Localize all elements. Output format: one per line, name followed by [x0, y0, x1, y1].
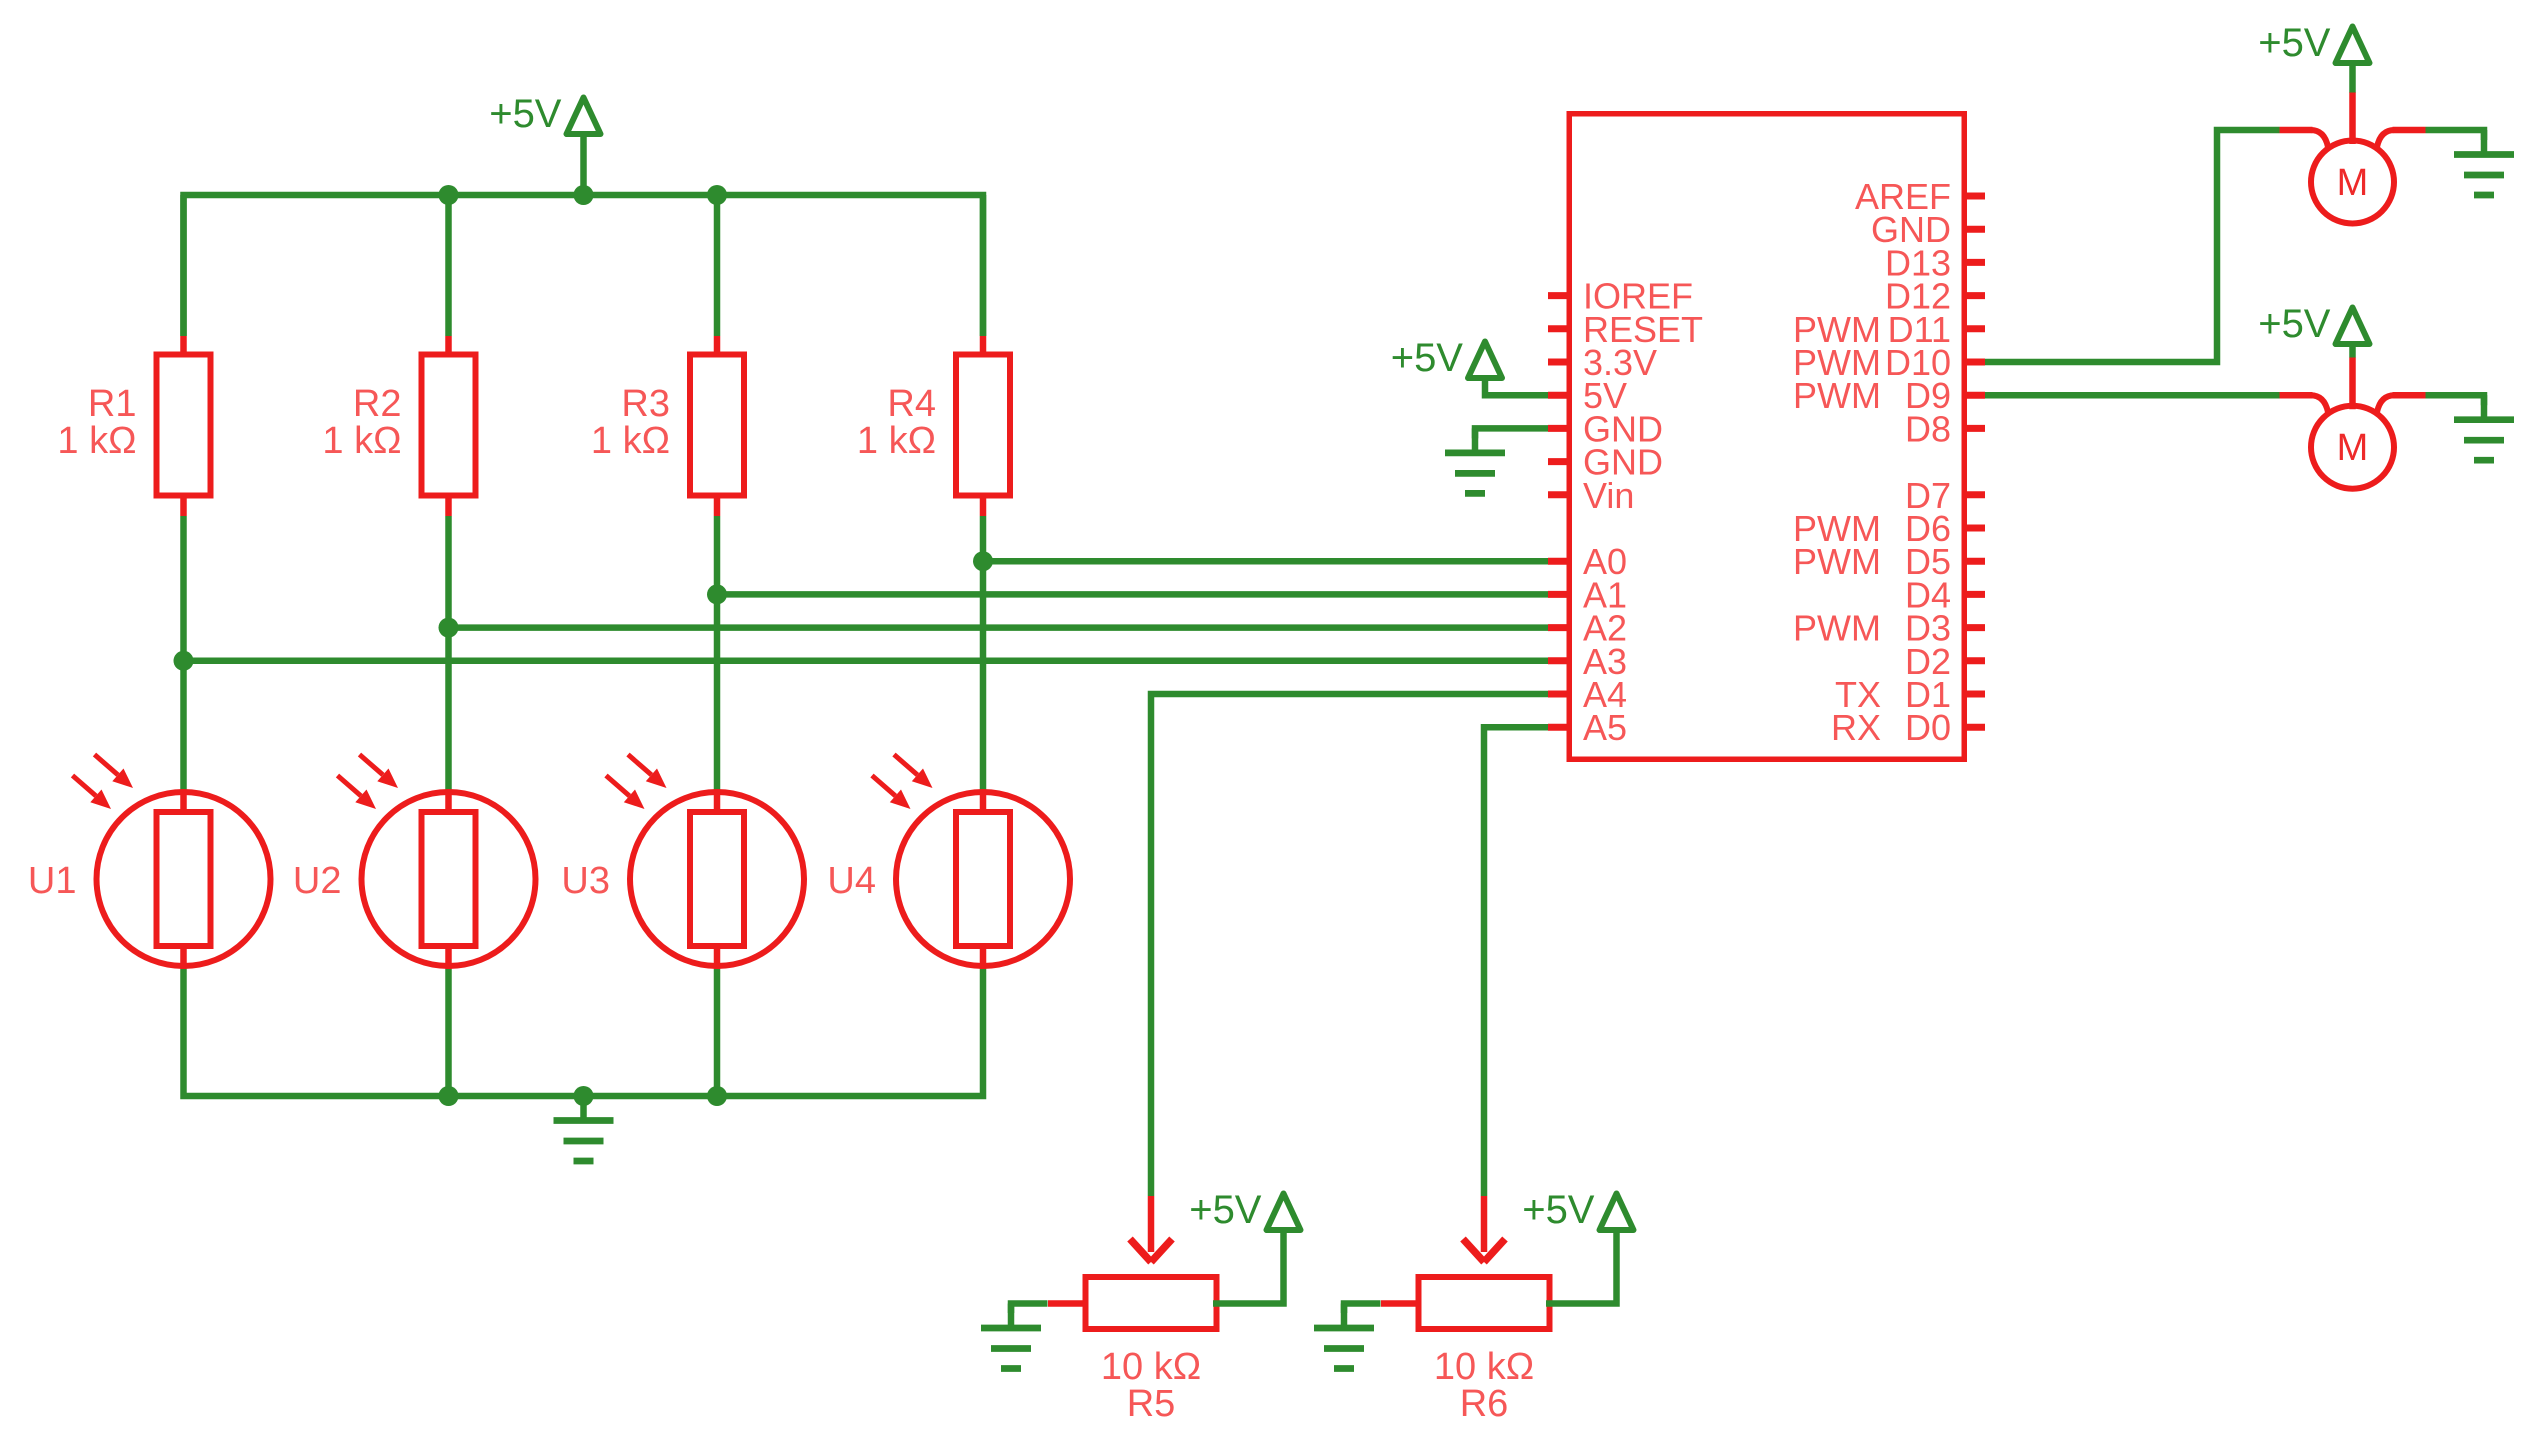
node junction A2 tap — [439, 618, 459, 638]
pin D10 (right, stub + label) — [1793, 342, 1985, 383]
resistor R3 1 kOhm with leads — [591, 195, 744, 790]
svg-text:10 kΩ: 10 kΩ — [1434, 1346, 1534, 1388]
motor M2 — [2280, 357, 2426, 489]
ground GND1 (sensor network) — [554, 1096, 614, 1161]
wire R5 left to ground — [1011, 1304, 1048, 1314]
pin A1 (left, stub + label) — [1548, 574, 1627, 615]
wire motor M1 to ground — [2426, 130, 2485, 140]
power flag +5V PWR6 (R6) — [1522, 1188, 1633, 1232]
svg-text:+5V: +5V — [1522, 1188, 1595, 1232]
wire +5V stem to rail — [580, 134, 587, 195]
pin D8 (right, stub + label) — [1905, 408, 1985, 449]
power flag +5V PWR4 (motor M2) — [2258, 302, 2369, 346]
node junction brail-U3 — [707, 1086, 727, 1106]
resistor R4 1 kOhm with leads — [857, 195, 1010, 790]
svg-text:D8: D8 — [1905, 408, 1951, 449]
svg-text:+5V: +5V — [489, 92, 562, 136]
svg-text:M: M — [2337, 162, 2369, 204]
ground GND3 (motor M1) — [2454, 130, 2514, 195]
pin 3.3V (left, stub + label) — [1548, 342, 1657, 383]
wire +5V to motor M1 — [2349, 63, 2356, 93]
potentiometer R5 10 kOhm — [1048, 1196, 1217, 1425]
wire R5 right to +5V — [1213, 1230, 1284, 1304]
power flag +5V PWR3 (motor M1) — [2258, 21, 2369, 65]
node junction rail-R2 — [439, 185, 459, 205]
power flag +5V PWR5 (R5) — [1189, 1188, 1300, 1232]
photoresistor U4 — [827, 755, 1070, 969]
wire A1 net — [717, 591, 1548, 598]
pin A4 (left, stub + label) — [1548, 674, 1627, 715]
svg-text:U1: U1 — [28, 860, 77, 902]
svg-text:U3: U3 — [561, 860, 610, 902]
power flag +5V PWR1 (top of sensor network) — [489, 92, 600, 136]
photoresistor U1 — [28, 755, 271, 969]
wire A2 net — [449, 624, 1549, 631]
svg-text:R4: R4 — [887, 383, 936, 425]
wire D9 net — [1985, 392, 2280, 399]
wire R6 right to +5V — [1546, 1230, 1617, 1304]
wire R6 left to ground — [1344, 1304, 1381, 1314]
pin D13 (right, stub + label) — [1885, 242, 1985, 283]
svg-text:PWM: PWM — [1793, 375, 1881, 416]
wire A4 net — [1151, 694, 1548, 1196]
pin D2 (right, stub + label) — [1905, 641, 1985, 682]
pin D11 (right, stub + label) — [1793, 309, 1985, 350]
pin A2 (left, stub + label) — [1548, 608, 1627, 649]
module U5 Arduino Uno body — [1569, 114, 1964, 760]
motor M1 — [2280, 92, 2426, 224]
svg-text:PWM: PWM — [1793, 541, 1881, 582]
resistor R2 1 kOhm with leads — [322, 195, 475, 790]
pin GND (left, stub + label) — [1548, 442, 1663, 483]
svg-text:RX: RX — [1831, 707, 1881, 748]
svg-text:PWM: PWM — [1793, 608, 1881, 649]
pin IOREF (left, stub + label) — [1548, 276, 1693, 317]
pin Vin (left, stub + label) — [1548, 475, 1634, 516]
pin AREF (right, stub + label) — [1855, 176, 1985, 217]
wire +5V to motor M2 — [2349, 344, 2356, 358]
svg-text:A5: A5 — [1583, 707, 1627, 748]
photoresistor U3 — [561, 755, 804, 1096]
svg-text:R5: R5 — [1127, 1383, 1176, 1425]
pin D7 (right, stub + label) — [1905, 475, 1985, 516]
power flag +5V PWR2 (Arduino 5V pin) — [1391, 336, 1502, 380]
pin 5V (left, stub + label) — [1548, 375, 1627, 416]
pin D0 (right, stub + label) — [1831, 707, 1985, 748]
pin A5 (left, stub + label) — [1548, 707, 1627, 748]
pin D9 (right, stub + label) — [1793, 375, 1985, 416]
svg-text:10 kΩ: 10 kΩ — [1101, 1346, 1201, 1388]
svg-text:R6: R6 — [1460, 1383, 1509, 1425]
svg-text:1 kΩ: 1 kΩ — [591, 420, 670, 462]
svg-text:1 kΩ: 1 kΩ — [57, 420, 136, 462]
pin D6 (right, stub + label) — [1793, 508, 1985, 549]
pin RESET (left, stub + label) — [1548, 309, 1703, 350]
potentiometer R6 10 kOhm — [1381, 1196, 1550, 1425]
svg-text:U2: U2 — [293, 860, 342, 902]
svg-text:R2: R2 — [353, 383, 402, 425]
svg-text:+5V: +5V — [1391, 336, 1464, 380]
wire A0 net — [983, 558, 1548, 565]
svg-text:+5V: +5V — [1189, 1188, 1262, 1232]
wire A3 net — [184, 658, 1549, 665]
node junction rail-R3 — [707, 185, 727, 205]
resistor R1 1 kOhm with leads — [57, 195, 210, 790]
pin D5 (right, stub + label) — [1793, 541, 1985, 582]
wire motor M2 to ground — [2426, 395, 2485, 405]
pin D12 (right, stub + label) — [1885, 276, 1985, 317]
wire A5 net — [1484, 727, 1548, 1196]
node junction brail-gnd — [574, 1086, 594, 1106]
svg-text:1 kΩ: 1 kΩ — [322, 420, 401, 462]
ground GND5 (R5) — [981, 1304, 1041, 1369]
ground GND4 (motor M2) — [2454, 395, 2514, 460]
pin A0 (left, stub + label) — [1548, 541, 1627, 582]
svg-text:U4: U4 — [827, 860, 876, 902]
pin GND (right, stub + label) — [1871, 209, 1985, 250]
svg-text:+5V: +5V — [2258, 302, 2331, 346]
svg-text:D0: D0 — [1905, 707, 1951, 748]
node junction A1 tap — [707, 584, 727, 604]
pin D3 (right, stub + label) — [1793, 608, 1985, 649]
svg-text:1 kΩ: 1 kΩ — [857, 420, 936, 462]
wire +5V to 5V pin — [1485, 378, 1548, 395]
svg-text:R3: R3 — [621, 383, 670, 425]
node junction A3 tap — [174, 651, 194, 671]
wire D10 net — [1985, 130, 2280, 362]
pin A3 (left, stub + label) — [1548, 641, 1627, 682]
pin GND (left, stub + label) — [1548, 408, 1663, 449]
wire bottom ground rail — [184, 969, 984, 1096]
svg-text:Vin: Vin — [1583, 475, 1634, 516]
node junction brail-U2 — [439, 1086, 459, 1106]
node junction A0 tap — [973, 551, 993, 571]
svg-text:M: M — [2337, 427, 2369, 469]
wire +5V top rail — [184, 195, 984, 336]
pin D1 (right, stub + label) — [1835, 674, 1985, 715]
ground GND2 (Arduino GND pin) — [1445, 428, 1505, 493]
pin D4 (right, stub + label) — [1905, 574, 1985, 615]
photoresistor U2 — [293, 755, 536, 1096]
node junction rail-power — [574, 185, 594, 205]
wire GND pin to ground — [1475, 428, 1548, 438]
ground GND6 (R6) — [1314, 1304, 1374, 1369]
svg-text:R1: R1 — [88, 383, 137, 425]
svg-text:+5V: +5V — [2258, 21, 2331, 65]
